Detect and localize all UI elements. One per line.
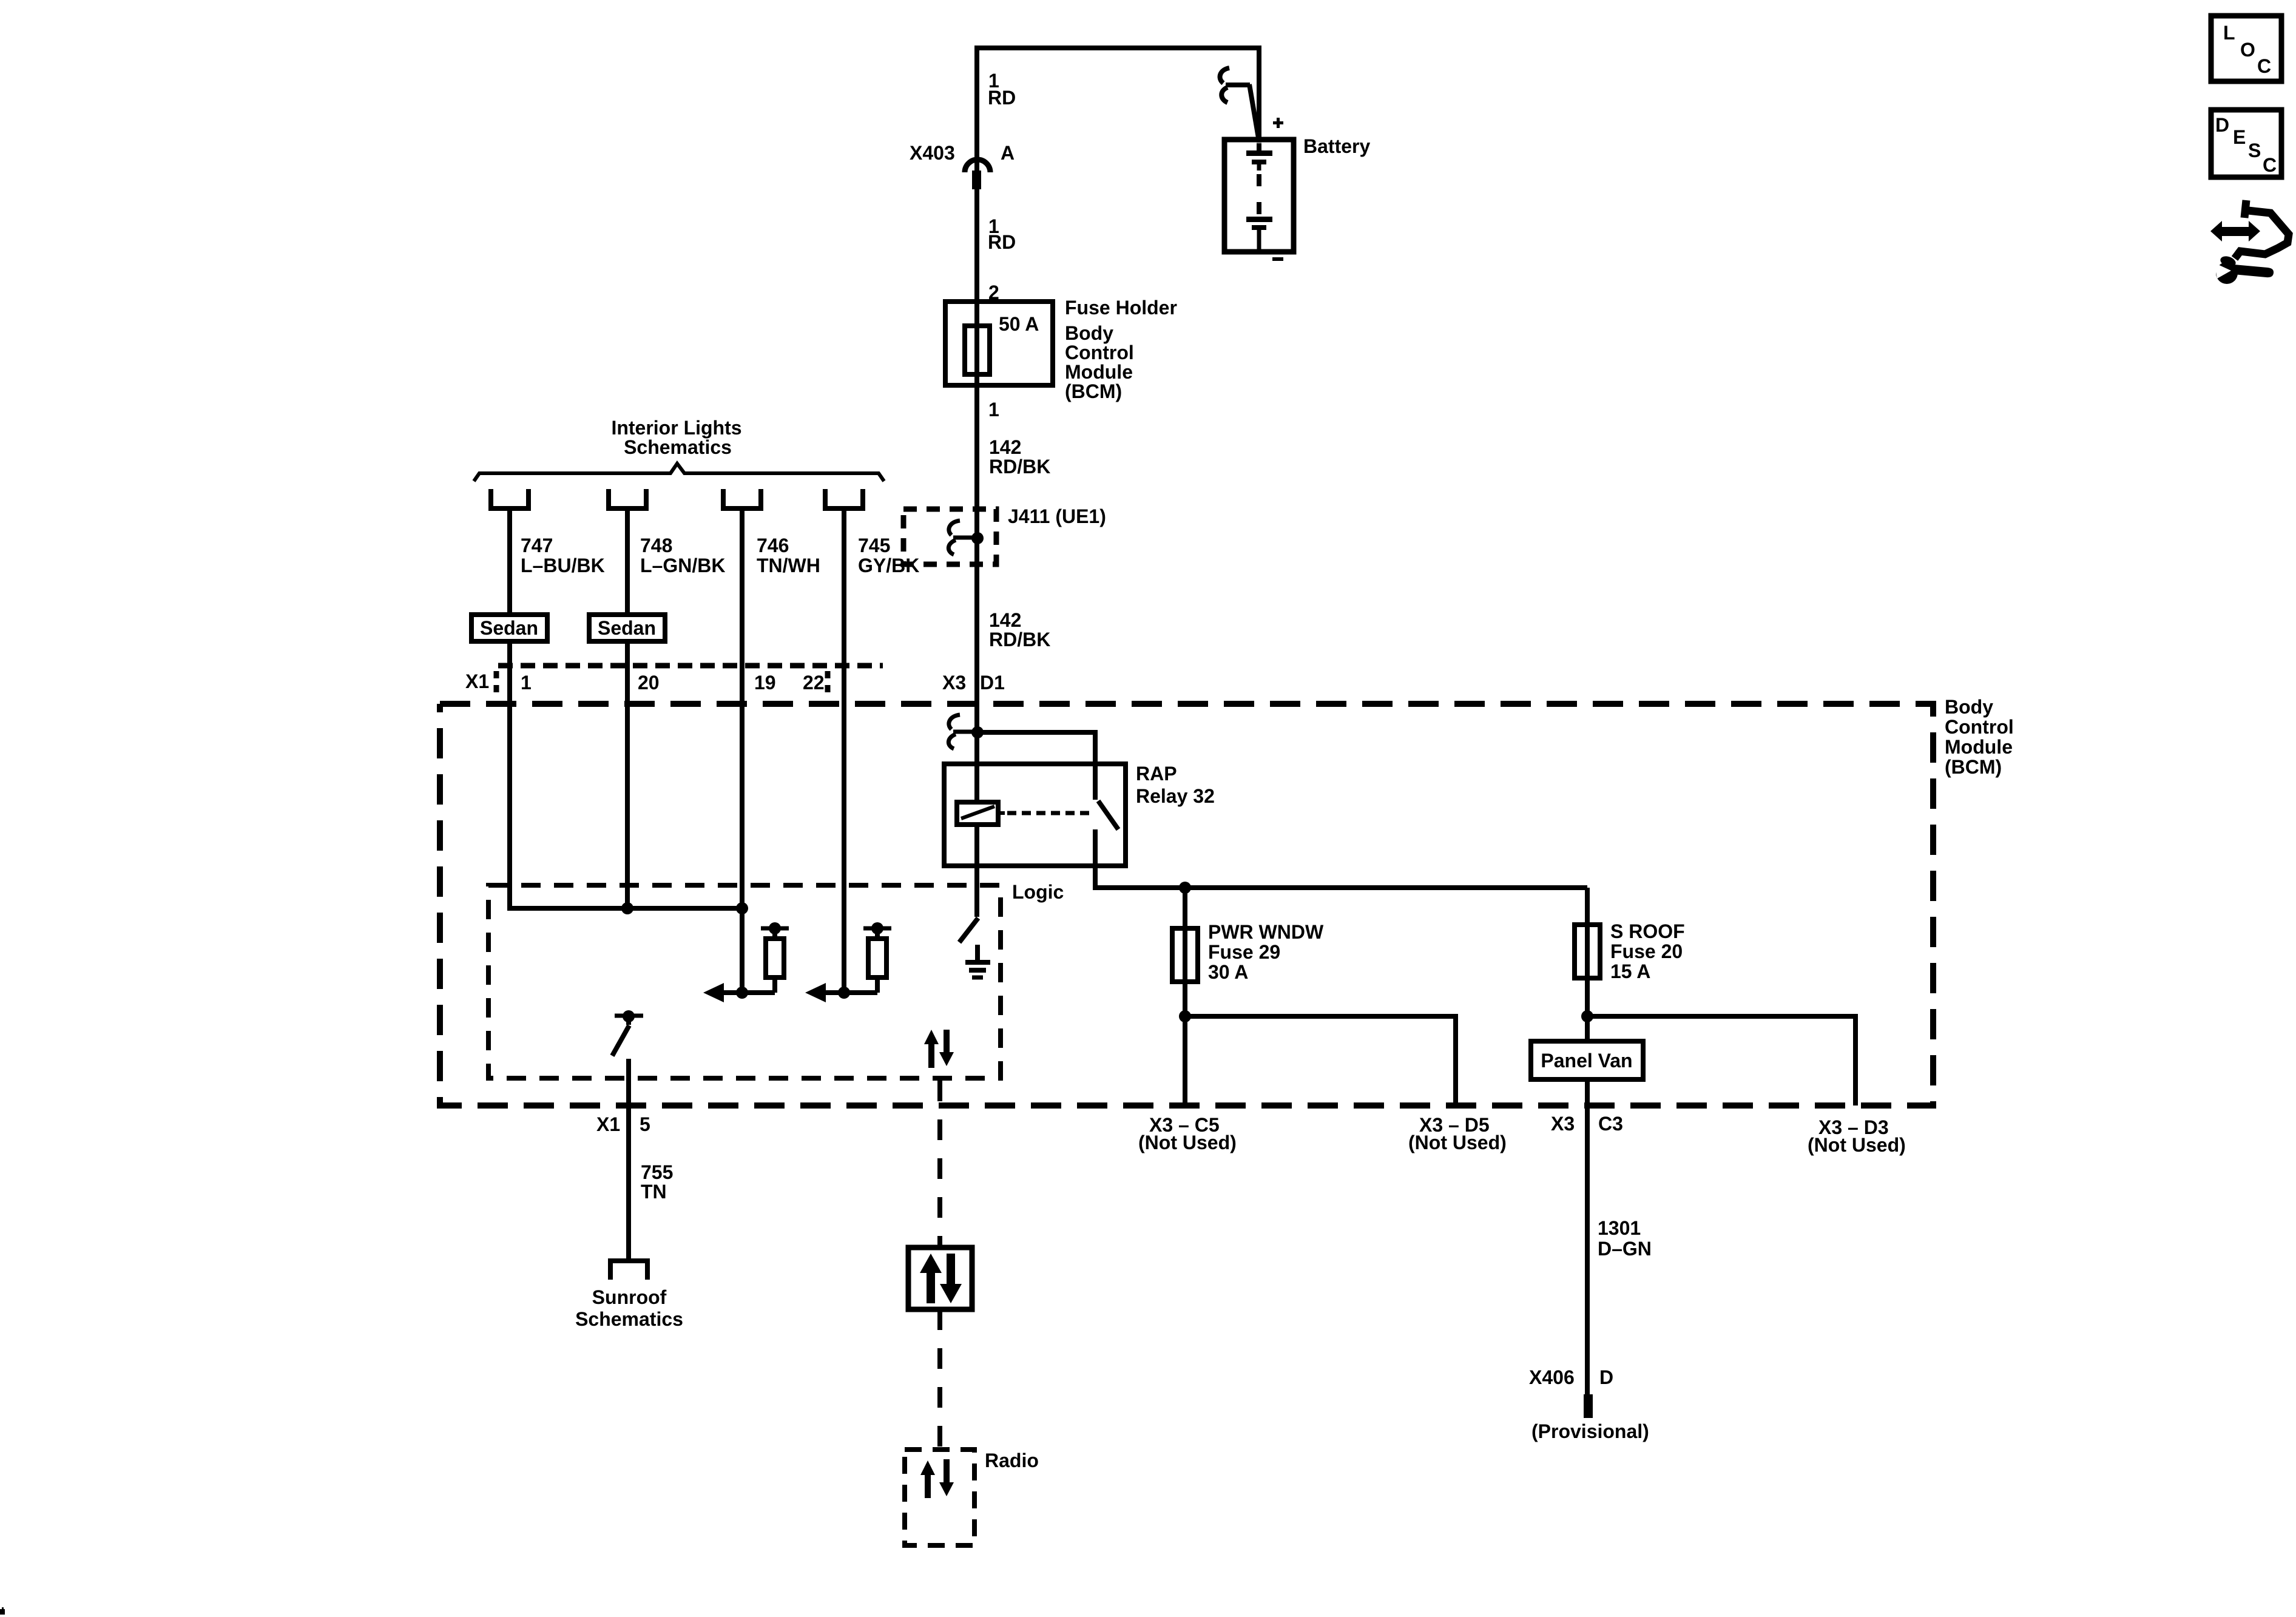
- svg-text:5: 5: [640, 1113, 650, 1135]
- label X3 - D3 (Not Used): [1808, 1116, 1906, 1156]
- wire through PWR WNDW fuse: [1183, 888, 1187, 1106]
- wire relay output to fuses: [1095, 829, 1587, 888]
- icon wiring repair (double arrow into connector outline, wrench): [2210, 200, 2289, 284]
- sedan option box (748): [589, 615, 665, 641]
- label Body Control Module (BCM) right: [1945, 696, 2014, 778]
- connector to interior lights circuit 745: [823, 489, 865, 508]
- connector to sunroof schematics: [610, 1261, 647, 1280]
- svg-text:Logic: Logic: [1012, 881, 1064, 903]
- junction dot resistor/745: [838, 987, 850, 999]
- junction dot at relay feed: [971, 726, 984, 738]
- wire to X3-D3: [1587, 1016, 1855, 1106]
- wire 1301 D-GN to X406: [1585, 1079, 1590, 1394]
- label PWR WNDW Fuse 29 30 A: [1208, 921, 1324, 983]
- svg-text:Radio: Radio: [985, 1450, 1039, 1471]
- label Sunroof Schematics: [575, 1286, 683, 1330]
- svg-text:D–GN: D–GN: [1598, 1238, 1652, 1260]
- wire J411 to BCM (142 RD/BK): [974, 540, 979, 802]
- svg-text:RAP: RAP: [1136, 763, 1177, 785]
- svg-text:(BCM): (BCM): [1945, 756, 2002, 778]
- svg-text:746: 746: [757, 535, 789, 556]
- label circuit 747 L-BU/BK: [521, 535, 605, 576]
- relay coil-to-switch dashed link: [1007, 811, 1092, 815]
- svg-text:Fuse Holder: Fuse Holder: [1065, 297, 1177, 319]
- label circuit 746 TN/WH: [757, 535, 820, 576]
- fuse 29 PWR WNDW 30A: [1172, 928, 1198, 982]
- svg-text:Schematics: Schematics: [624, 436, 732, 458]
- svg-text:TN/WH: TN/WH: [757, 555, 820, 576]
- svg-text:22: 22: [803, 672, 825, 694]
- label + (battery positive): [1273, 118, 1283, 128]
- label circuit 142 RD/BK (lower): [989, 609, 1050, 650]
- label circuit 755 TN: [641, 1161, 673, 1203]
- wire relay coil to logic switch: [974, 825, 979, 917]
- svg-text:(BCM): (BCM): [1065, 380, 1122, 402]
- junction dot X3-D3 branch: [1581, 1010, 1593, 1022]
- panel van option box: [1531, 1041, 1643, 1079]
- svg-text:Sedan: Sedan: [598, 617, 656, 639]
- label circuit 748 L-GN/BK: [640, 535, 725, 576]
- connector to interior lights circuit 748: [606, 489, 649, 508]
- label X3 - C5 (Not Used): [1138, 1114, 1237, 1153]
- svg-text:142: 142: [989, 609, 1021, 631]
- svg-text:Battery: Battery: [1303, 135, 1370, 157]
- junction dot 748/bus: [621, 902, 633, 914]
- svg-text:19: 19: [754, 672, 776, 694]
- svg-text:1: 1: [521, 672, 532, 694]
- fuse holder box: [945, 302, 1053, 385]
- svg-text:C: C: [2257, 55, 2271, 77]
- svg-text:Fuse 20: Fuse 20: [1610, 940, 1683, 962]
- svg-text:E: E: [2233, 126, 2246, 148]
- label circuit 745 GY/BK: [858, 535, 919, 576]
- svg-text:20: 20: [638, 672, 660, 694]
- wire X403 to fuse holder (1 RD): [974, 182, 979, 328]
- grommet symbol at J411: [948, 521, 973, 555]
- dashed wire to radio: [937, 1309, 942, 1450]
- label Interior Lights Schematics: [611, 417, 741, 458]
- logic switch to ground: [959, 918, 978, 942]
- wire to relay switch common: [977, 732, 1095, 766]
- label connector X406 pin D: [1529, 1366, 1613, 1388]
- wire 748 L-GN/BK: [625, 508, 630, 908]
- svg-text:Fuse 29: Fuse 29: [1208, 941, 1280, 963]
- svg-text:Panel Van: Panel Van: [1541, 1050, 1632, 1072]
- label connector X3 pin D1: [942, 672, 1005, 694]
- label RAP Relay 32: [1136, 763, 1215, 807]
- svg-text:A: A: [1001, 142, 1015, 164]
- junction dot PWR WNDW branch: [1179, 882, 1191, 894]
- svg-text:S ROOF: S ROOF: [1610, 920, 1685, 942]
- fusible link hook at battery terminal: [1220, 68, 1259, 141]
- scan artifact speck bottom-left: [0, 1607, 5, 1615]
- svg-text:30 A: 30 A: [1208, 961, 1248, 983]
- svg-text:RD: RD: [988, 231, 1016, 253]
- pull-up resistor on circuit 746: [723, 922, 789, 993]
- relay coil: [957, 802, 1005, 825]
- svg-text:L–GN/BK: L–GN/BK: [640, 555, 725, 576]
- svg-text:PWR WNDW: PWR WNDW: [1208, 921, 1324, 943]
- svg-text:15 A: 15 A: [1610, 960, 1650, 982]
- svg-text:RD: RD: [988, 87, 1016, 109]
- radio dashed box: [905, 1450, 974, 1545]
- ground symbol: [965, 945, 990, 977]
- label connector X1 pin 5: [596, 1113, 650, 1135]
- svg-text:(Not Used): (Not Used): [1138, 1132, 1237, 1153]
- svg-text:142: 142: [989, 436, 1021, 458]
- label circuit 1301 D-GN: [1598, 1217, 1652, 1260]
- junction dot 746/bus: [736, 902, 748, 914]
- svg-text:1301: 1301: [1598, 1217, 1641, 1239]
- battery: [1224, 140, 1294, 252]
- connector to interior lights circuit 747: [488, 489, 531, 508]
- svg-text:Module: Module: [1945, 736, 2013, 758]
- svg-text:RD/BK: RD/BK: [989, 456, 1050, 478]
- up/down arrows (radio): [920, 1459, 954, 1498]
- svg-text:(Not Used): (Not Used): [1408, 1132, 1507, 1153]
- svg-text:RD/BK: RD/BK: [989, 629, 1050, 650]
- connector X403 symbol (half circle): [965, 160, 990, 172]
- svg-text:C: C: [2263, 154, 2277, 176]
- svg-text:Module: Module: [1065, 361, 1133, 383]
- dashed wire logic to retained power module: [937, 1081, 942, 1247]
- label circuit 1 RD (below X403): [988, 215, 1016, 253]
- terminal at X406: [1584, 1394, 1593, 1418]
- svg-text:J411 (UE1): J411 (UE1): [1008, 505, 1106, 527]
- connector to interior lights circuit 746: [721, 489, 763, 508]
- sedan option box (747): [471, 615, 547, 641]
- relay switch: [1095, 766, 1118, 829]
- svg-text:Body: Body: [1945, 696, 1993, 718]
- retained accessory power box (up/down): [908, 1247, 972, 1309]
- svg-text:O: O: [2240, 39, 2255, 61]
- icon LOC box: [2211, 16, 2281, 81]
- grommet at BCM D1 input: [948, 715, 973, 749]
- label circuit 142 RD/BK (upper): [989, 436, 1050, 478]
- svg-text:Interior Lights: Interior Lights: [611, 417, 741, 439]
- svg-text:D1: D1: [980, 672, 1005, 694]
- svg-text:50 A: 50 A: [999, 313, 1039, 335]
- wire through fuse: [974, 328, 979, 540]
- wire to X3-D5: [1185, 1016, 1456, 1106]
- svg-text:Control: Control: [1945, 716, 2014, 738]
- fuse 50 A element: [965, 326, 990, 374]
- svg-text:GY/BK: GY/BK: [858, 555, 919, 576]
- svg-text:D: D: [1599, 1366, 1613, 1388]
- svg-text:745: 745: [858, 535, 890, 556]
- svg-text:Sunroof: Sunroof: [592, 1286, 667, 1308]
- up/down arrows (logic output to radio): [924, 1030, 954, 1068]
- junction dot resistor/746: [736, 987, 748, 999]
- svg-text:X3: X3: [1551, 1113, 1575, 1135]
- sunroof output switch in logic: [612, 1010, 643, 1056]
- logic dashed box: [488, 885, 1001, 1078]
- relay RAP Relay 32 box: [944, 764, 1126, 866]
- arrowhead (to logic) circuit 746: [703, 983, 724, 1002]
- label Body Control Module (BCM): [1065, 322, 1134, 402]
- svg-text:X1: X1: [596, 1113, 620, 1135]
- brace (interior lights group): [474, 464, 884, 481]
- label circuit 1 RD (above X403): [988, 70, 1016, 109]
- svg-text:L: L: [2223, 22, 2235, 44]
- svg-text:Sedan: Sedan: [480, 617, 538, 639]
- wire through S ROOF fuse: [1585, 888, 1590, 1041]
- wire battery positive feed (1 RD): [977, 48, 1259, 176]
- terminal at X403: [972, 170, 981, 189]
- pull-up resistor on circuit 745: [825, 922, 891, 993]
- wire 755 TN to sunroof: [626, 1059, 631, 1261]
- svg-text:X3: X3: [942, 672, 966, 694]
- svg-text:748: 748: [640, 535, 672, 556]
- junction dot at J411: [971, 532, 984, 544]
- svg-text:C3: C3: [1598, 1113, 1623, 1135]
- BCM dashed box: [440, 704, 1933, 1106]
- svg-text:X1: X1: [465, 670, 489, 692]
- wire 747 L-BU/BK: [510, 508, 742, 908]
- label connector X3 pin C3: [1551, 1113, 1623, 1135]
- wire 745 GY/BK: [842, 508, 846, 993]
- svg-text:TN: TN: [641, 1181, 667, 1203]
- splice J411 dashed box: [903, 509, 996, 564]
- svg-text:1: 1: [988, 399, 999, 420]
- label - (battery negative): [1272, 257, 1283, 261]
- svg-text:Relay 32: Relay 32: [1136, 785, 1215, 807]
- svg-text:D: D: [2215, 114, 2229, 136]
- svg-text:X403: X403: [910, 142, 955, 164]
- svg-text:S: S: [2248, 140, 2261, 161]
- arrowhead (to logic) circuit 745: [805, 983, 826, 1002]
- icon DESC box: [2211, 110, 2281, 177]
- svg-text:L–BU/BK: L–BU/BK: [521, 555, 605, 576]
- label X3 - D5 (Not Used): [1408, 1114, 1507, 1153]
- svg-text:Control: Control: [1065, 342, 1134, 363]
- svg-text:(Provisional): (Provisional): [1531, 1420, 1649, 1442]
- svg-text:X406: X406: [1529, 1366, 1575, 1388]
- wire 746 TN/WH: [740, 508, 745, 993]
- junction dot X3-D5 branch: [1179, 1010, 1191, 1022]
- connector X1 dotted line: [496, 666, 883, 695]
- svg-text:(Not Used): (Not Used): [1808, 1134, 1906, 1156]
- svg-text:755: 755: [641, 1161, 673, 1183]
- label S ROOF Fuse 20 15 A: [1610, 920, 1685, 982]
- svg-text:Body: Body: [1065, 322, 1113, 344]
- svg-text:747: 747: [521, 535, 553, 556]
- fuse 20 S ROOF 15A: [1575, 925, 1600, 978]
- svg-text:Schematics: Schematics: [575, 1308, 683, 1330]
